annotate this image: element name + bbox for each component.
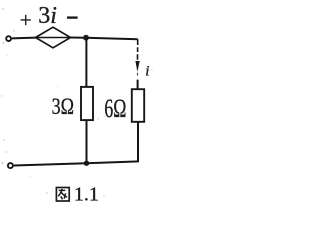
- resistor R2 6ohm body: [132, 89, 144, 122]
- svg-text:3i: 3i: [38, 3, 57, 29]
- terminal node (top-left): [6, 36, 11, 41]
- caption: 1.1: [74, 184, 99, 206]
- wire arrow to resistor R2: [137, 80, 139, 90]
- wire source to node A: [71, 37, 87, 39]
- scan noise speckles: [1, 8, 167, 197]
- wire resistor R2 to bottom-right corner: [137, 122, 139, 162]
- source middle line: [37, 37, 70, 39]
- bottom rail wire: [14, 163, 87, 165]
- wire resistor R1 to bottom rail: [86, 120, 88, 163]
- current arrow i: [135, 61, 139, 72]
- right branch dashed wire down: [137, 39, 139, 60]
- wire top-left to source: [12, 37, 36, 40]
- junction dot bottom: [84, 161, 89, 166]
- caption: 图 (drawn glyph): [56, 188, 69, 202]
- label +: [20, 8, 32, 32]
- svg-text:3Ω: 3Ω: [52, 94, 74, 120]
- svg-text:i: i: [145, 64, 149, 80]
- label 3i: [38, 3, 57, 29]
- svg-text:6Ω: 6Ω: [104, 94, 126, 123]
- svg-text:1.1: 1.1: [74, 184, 99, 206]
- node A junction dot: [83, 35, 89, 41]
- label 3ohm: [52, 94, 74, 120]
- svg-text:+: +: [20, 8, 32, 32]
- wire node A to top-right corner: [86, 38, 138, 40]
- dependent voltage source U (diamond): [36, 27, 71, 48]
- label 6ohm: [104, 94, 126, 123]
- resistor R1 3ohm body: [81, 87, 93, 120]
- terminal node (bottom-left): [8, 163, 13, 168]
- wire node A down to resistor R1: [85, 38, 87, 87]
- label i (current): [145, 64, 149, 80]
- label - (minus): [67, 16, 78, 18]
